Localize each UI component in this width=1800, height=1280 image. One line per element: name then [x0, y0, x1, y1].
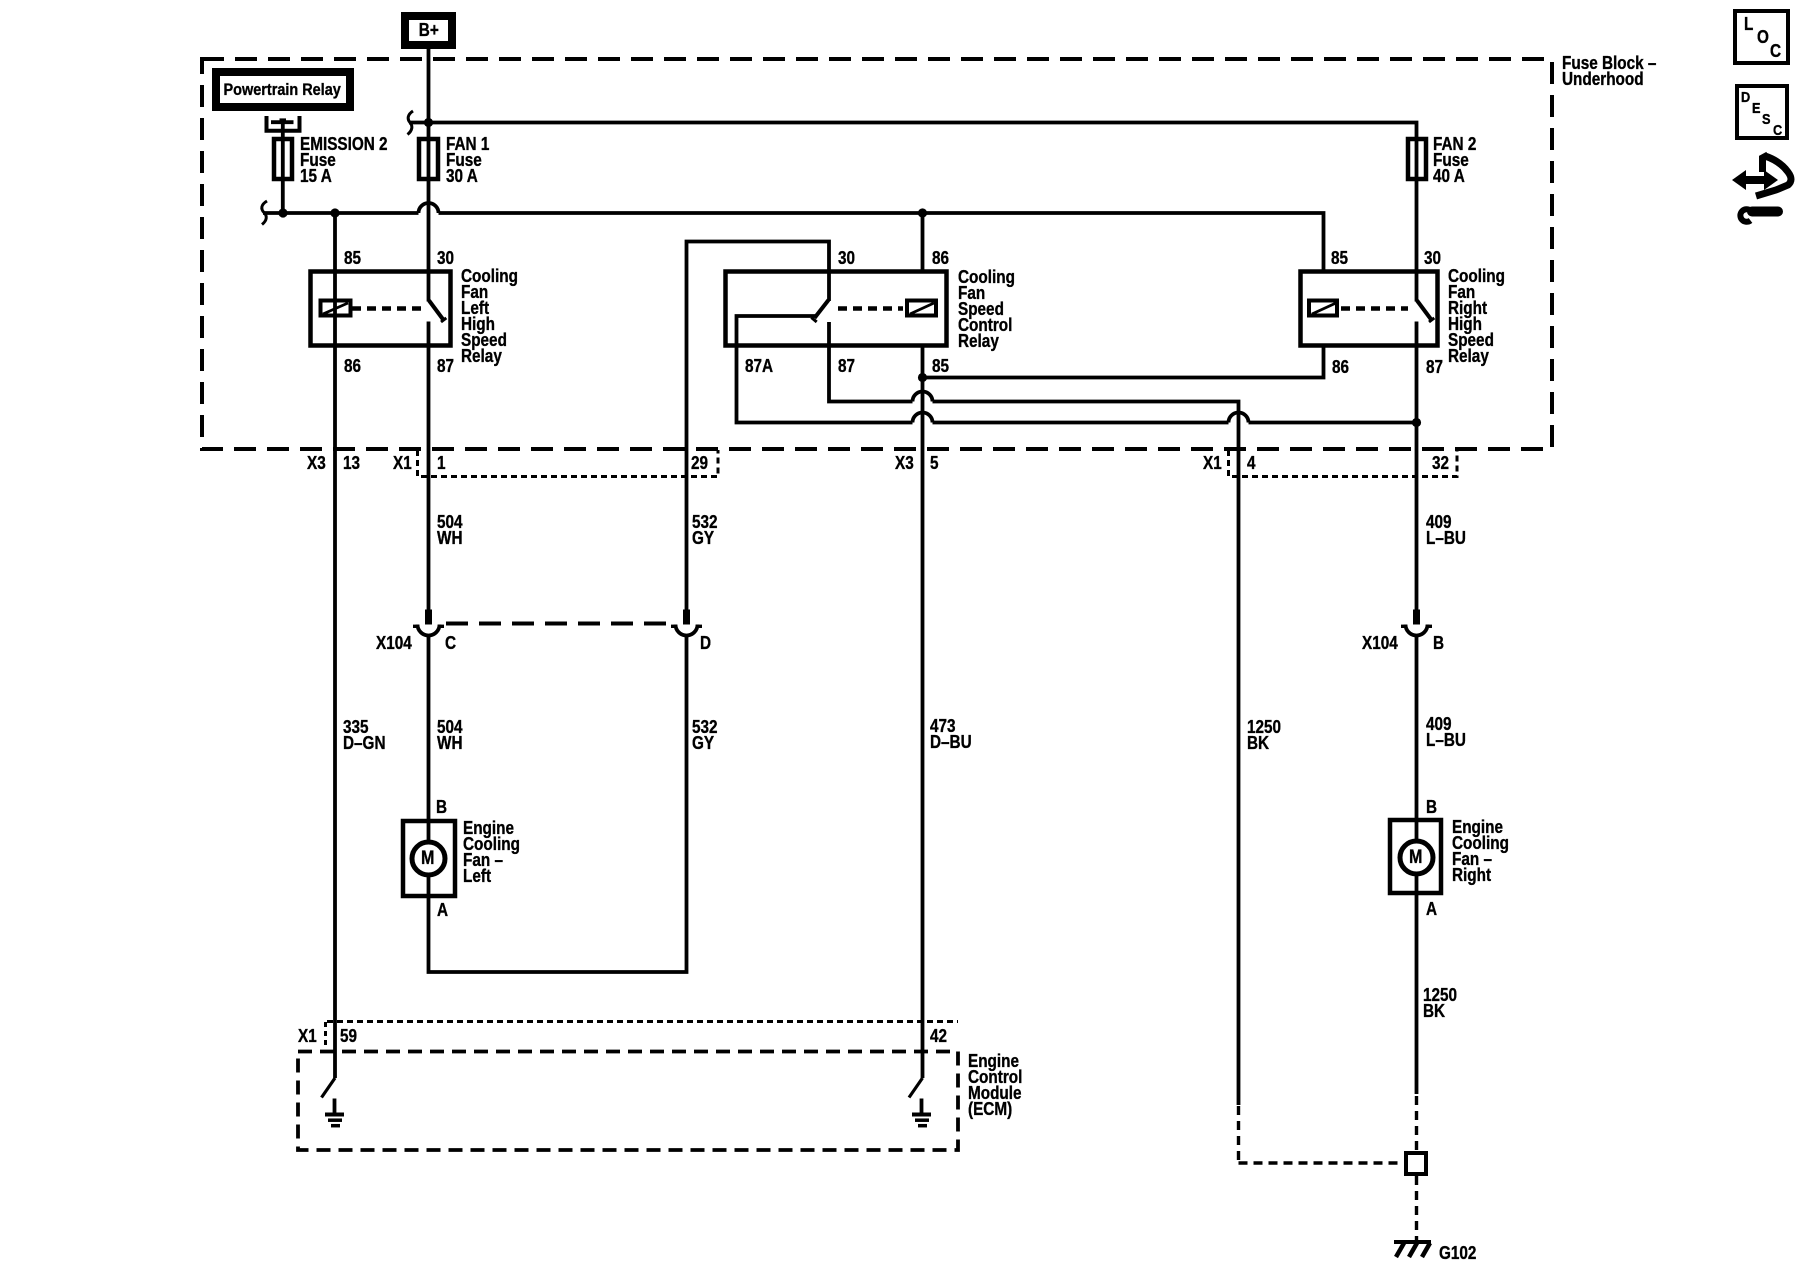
wire 1250 BK dashed run to splice — [1239, 1106, 1403, 1163]
node junction dot EMISSION2 fuse to bus — [278, 208, 287, 217]
wire 409 L-BU from X104-B to right fan motor and 1250 BK down — [1415, 636, 1419, 1095]
ECM connector face dashed line — [327, 1020, 958, 1023]
connector X1 sub-box pins 1-29 — [418, 450, 719, 477]
wire label 504 WH upper — [437, 514, 463, 546]
pin 85 right relay — [1331, 250, 1348, 266]
wire B+ feed down through FAN 1 fuse to relay pin 30 — [427, 49, 431, 272]
label cooling fan right high speed relay — [1448, 268, 1505, 364]
wire label 532 GY upper — [692, 514, 718, 546]
wire left relay pin 87 to X104-C (504 WH) — [427, 346, 431, 610]
wire label 335 D-GN — [343, 719, 386, 751]
wire middle relay pin 87 to pin X1-4 (1250 BK) with hop — [829, 346, 1239, 1106]
node junction dot middle 85 to cross wire — [918, 373, 927, 382]
node junction dot middle relay 86 tap — [918, 208, 927, 217]
label engine control module ECM — [968, 1053, 1022, 1117]
connector X104 C-D dashed mate line — [446, 622, 671, 626]
node junction dot at B+ bus tap — [424, 118, 433, 127]
pin B left motor — [436, 799, 447, 815]
ground G102 symbol — [1394, 1242, 1431, 1257]
fuse FAN 2 40A — [1408, 139, 1426, 179]
wire left relay pin 85 drop and coil return to ECM pin 59 (335 D-GN) — [333, 213, 337, 1078]
fuse EMISSION 2 15A — [274, 139, 292, 179]
powertrain relay label box — [212, 68, 354, 111]
relay K3 switch blade and contact — [1417, 272, 1435, 346]
pin A right motor — [1426, 901, 1437, 917]
relay K3 coil-switch dashed link — [1341, 306, 1408, 311]
fuse block - underhood dashed border — [202, 59, 1552, 449]
motor M2 circle — [1400, 841, 1433, 874]
value label FAN 2 fuse 40 A — [1433, 136, 1476, 184]
wire label 409 L-BU lower — [1426, 716, 1466, 748]
ECM internal switch to ground at pin 42 — [909, 1078, 923, 1098]
relay K2 cooling fan speed control relay box — [726, 272, 947, 346]
DESC legend box — [1737, 86, 1787, 138]
motor M1 circle — [412, 842, 445, 875]
wire label 532 GY lower — [692, 719, 718, 751]
connector label X1 pin 1 — [393, 455, 412, 471]
pin 85 middle relay — [932, 358, 949, 374]
legend swap-arrow icon — [1732, 155, 1791, 196]
relay K2 switch blade and contacts — [737, 272, 830, 346]
pin A left motor — [437, 902, 448, 918]
legend wrench icon — [1740, 209, 1778, 222]
relay K1 switch blade and contact — [429, 272, 447, 346]
pin 30 right relay — [1424, 250, 1441, 266]
wire 504 WH from X104-C to left fan motor B and loop to X104-D — [429, 636, 687, 973]
wire middle relay 85 to right relay 86 — [923, 346, 1324, 378]
connector X104 pin D — [671, 610, 702, 636]
ground label G102 — [1439, 1245, 1476, 1261]
wire 532 GY from X104-D up through pin 29 to middle relay pin 30 — [687, 242, 830, 610]
node B+ battery feed box — [401, 12, 456, 49]
splice S102 square — [1406, 1153, 1426, 1174]
ECM connector X1 separator — [324, 1022, 327, 1048]
wire lower bus to right relay pin 85 with hop over FAN1 wire — [263, 203, 1324, 271]
wire label 409 L-BU upper — [1426, 514, 1466, 546]
ECM engine control module dashed box — [298, 1052, 958, 1151]
value label FAN 1 fuse 30 A — [446, 136, 489, 184]
connector label X104 pin B — [1362, 635, 1398, 651]
pin 87 middle relay — [838, 358, 855, 374]
label cooling fan speed control relay — [958, 269, 1015, 349]
connector X1 sub-box pins 4-32 — [1229, 450, 1458, 477]
legend LOC letters — [1744, 16, 1753, 32]
motor M1 letter — [421, 851, 434, 867]
connector label pin 32 — [1432, 455, 1449, 471]
pin B right motor — [1426, 799, 1437, 815]
relay K3 coil — [1309, 301, 1337, 316]
wire from powertrain relay output through EMISSION 2 fuse to lower bus — [281, 119, 285, 213]
pin 87 right relay — [1426, 359, 1443, 375]
pin 87 left relay — [437, 358, 454, 374]
connector label X1 pin 59 ECM — [298, 1028, 317, 1044]
label engine cooling fan left — [463, 820, 520, 884]
wire label 1250 BK right — [1423, 987, 1457, 1019]
powertrain relay output cradle symbol — [267, 116, 300, 131]
wire label 473 D-BU — [930, 718, 972, 750]
relay K1 cooling fan left high speed relay box — [311, 272, 451, 346]
pin 30 left relay — [437, 250, 454, 266]
wire right relay pin 87 down through pin 32 (409 L-BU) to X104-B — [1415, 346, 1419, 610]
pin 86 right relay — [1332, 359, 1349, 375]
label cooling fan left high speed relay — [461, 268, 518, 364]
wire continuation break symbol at top bus — [408, 111, 414, 135]
wire label 504 WH lower — [437, 719, 463, 751]
ECM internal switch to ground at pin 59 — [322, 1078, 336, 1098]
connector label pin 29 — [691, 455, 708, 471]
pin 86 left relay — [344, 358, 361, 374]
label fuse block underhood — [1562, 55, 1656, 87]
pin 85 left relay — [344, 250, 361, 266]
relay K3 cooling fan right high speed relay box — [1301, 272, 1438, 346]
label engine cooling fan right — [1452, 819, 1509, 883]
motor M2 letter — [1409, 850, 1422, 866]
wire bus from B+ junction to FAN 2 fuse (top horizontal) — [409, 123, 1417, 272]
fuse FAN 1 30A — [419, 139, 438, 179]
legend DESC letters — [1741, 90, 1750, 106]
ground symbol at ECM pin 42 — [912, 1099, 931, 1126]
connector X104 pin C — [413, 610, 444, 636]
ground symbol at ECM pin 59 — [325, 1099, 344, 1126]
wire middle relay 86 tap from bus — [921, 213, 925, 272]
motor M1 engine cooling fan left box — [403, 821, 455, 896]
relay K2 coil — [907, 301, 936, 316]
pin 86 middle relay — [932, 250, 949, 266]
wire dashed splice to G102 — [1415, 1176, 1418, 1240]
node junction dot left relay 85 tap — [330, 208, 339, 217]
connector label X3 pin 5 — [895, 455, 914, 471]
connector label X3 pin 13 — [307, 455, 326, 471]
connector X104 pin B — [1401, 610, 1432, 636]
value label EMISSION 2 fuse 15 A — [300, 136, 388, 184]
wire middle relay pin 87A to right relay 87 junction with hops — [737, 346, 1417, 423]
pin 30 middle relay — [838, 250, 855, 266]
wire 1250 BK dashed into splice — [1415, 1096, 1418, 1151]
connector label pin D — [700, 635, 711, 651]
connector label X1 pin 4 — [1203, 455, 1222, 471]
connector label pin 42 ECM — [930, 1028, 947, 1044]
connector label X104 pin C — [376, 635, 412, 651]
wire label 1250 BK left — [1247, 719, 1281, 751]
wire continuation break symbol at lower bus — [262, 201, 267, 225]
wire middle relay pin 85 down through X3-5 (473 D-BU) to ECM pin 42 — [921, 346, 925, 1079]
pin 87A middle relay — [745, 358, 773, 374]
relay K2 coil-switch dashed link — [838, 306, 903, 311]
LOC legend box — [1735, 11, 1788, 63]
node junction dot 87A line to right relay 87 wire — [1412, 418, 1421, 427]
relay K1 coil — [321, 301, 351, 316]
relay K1 coil-switch dashed link — [352, 306, 424, 311]
motor M2 engine cooling fan right box — [1390, 820, 1441, 893]
